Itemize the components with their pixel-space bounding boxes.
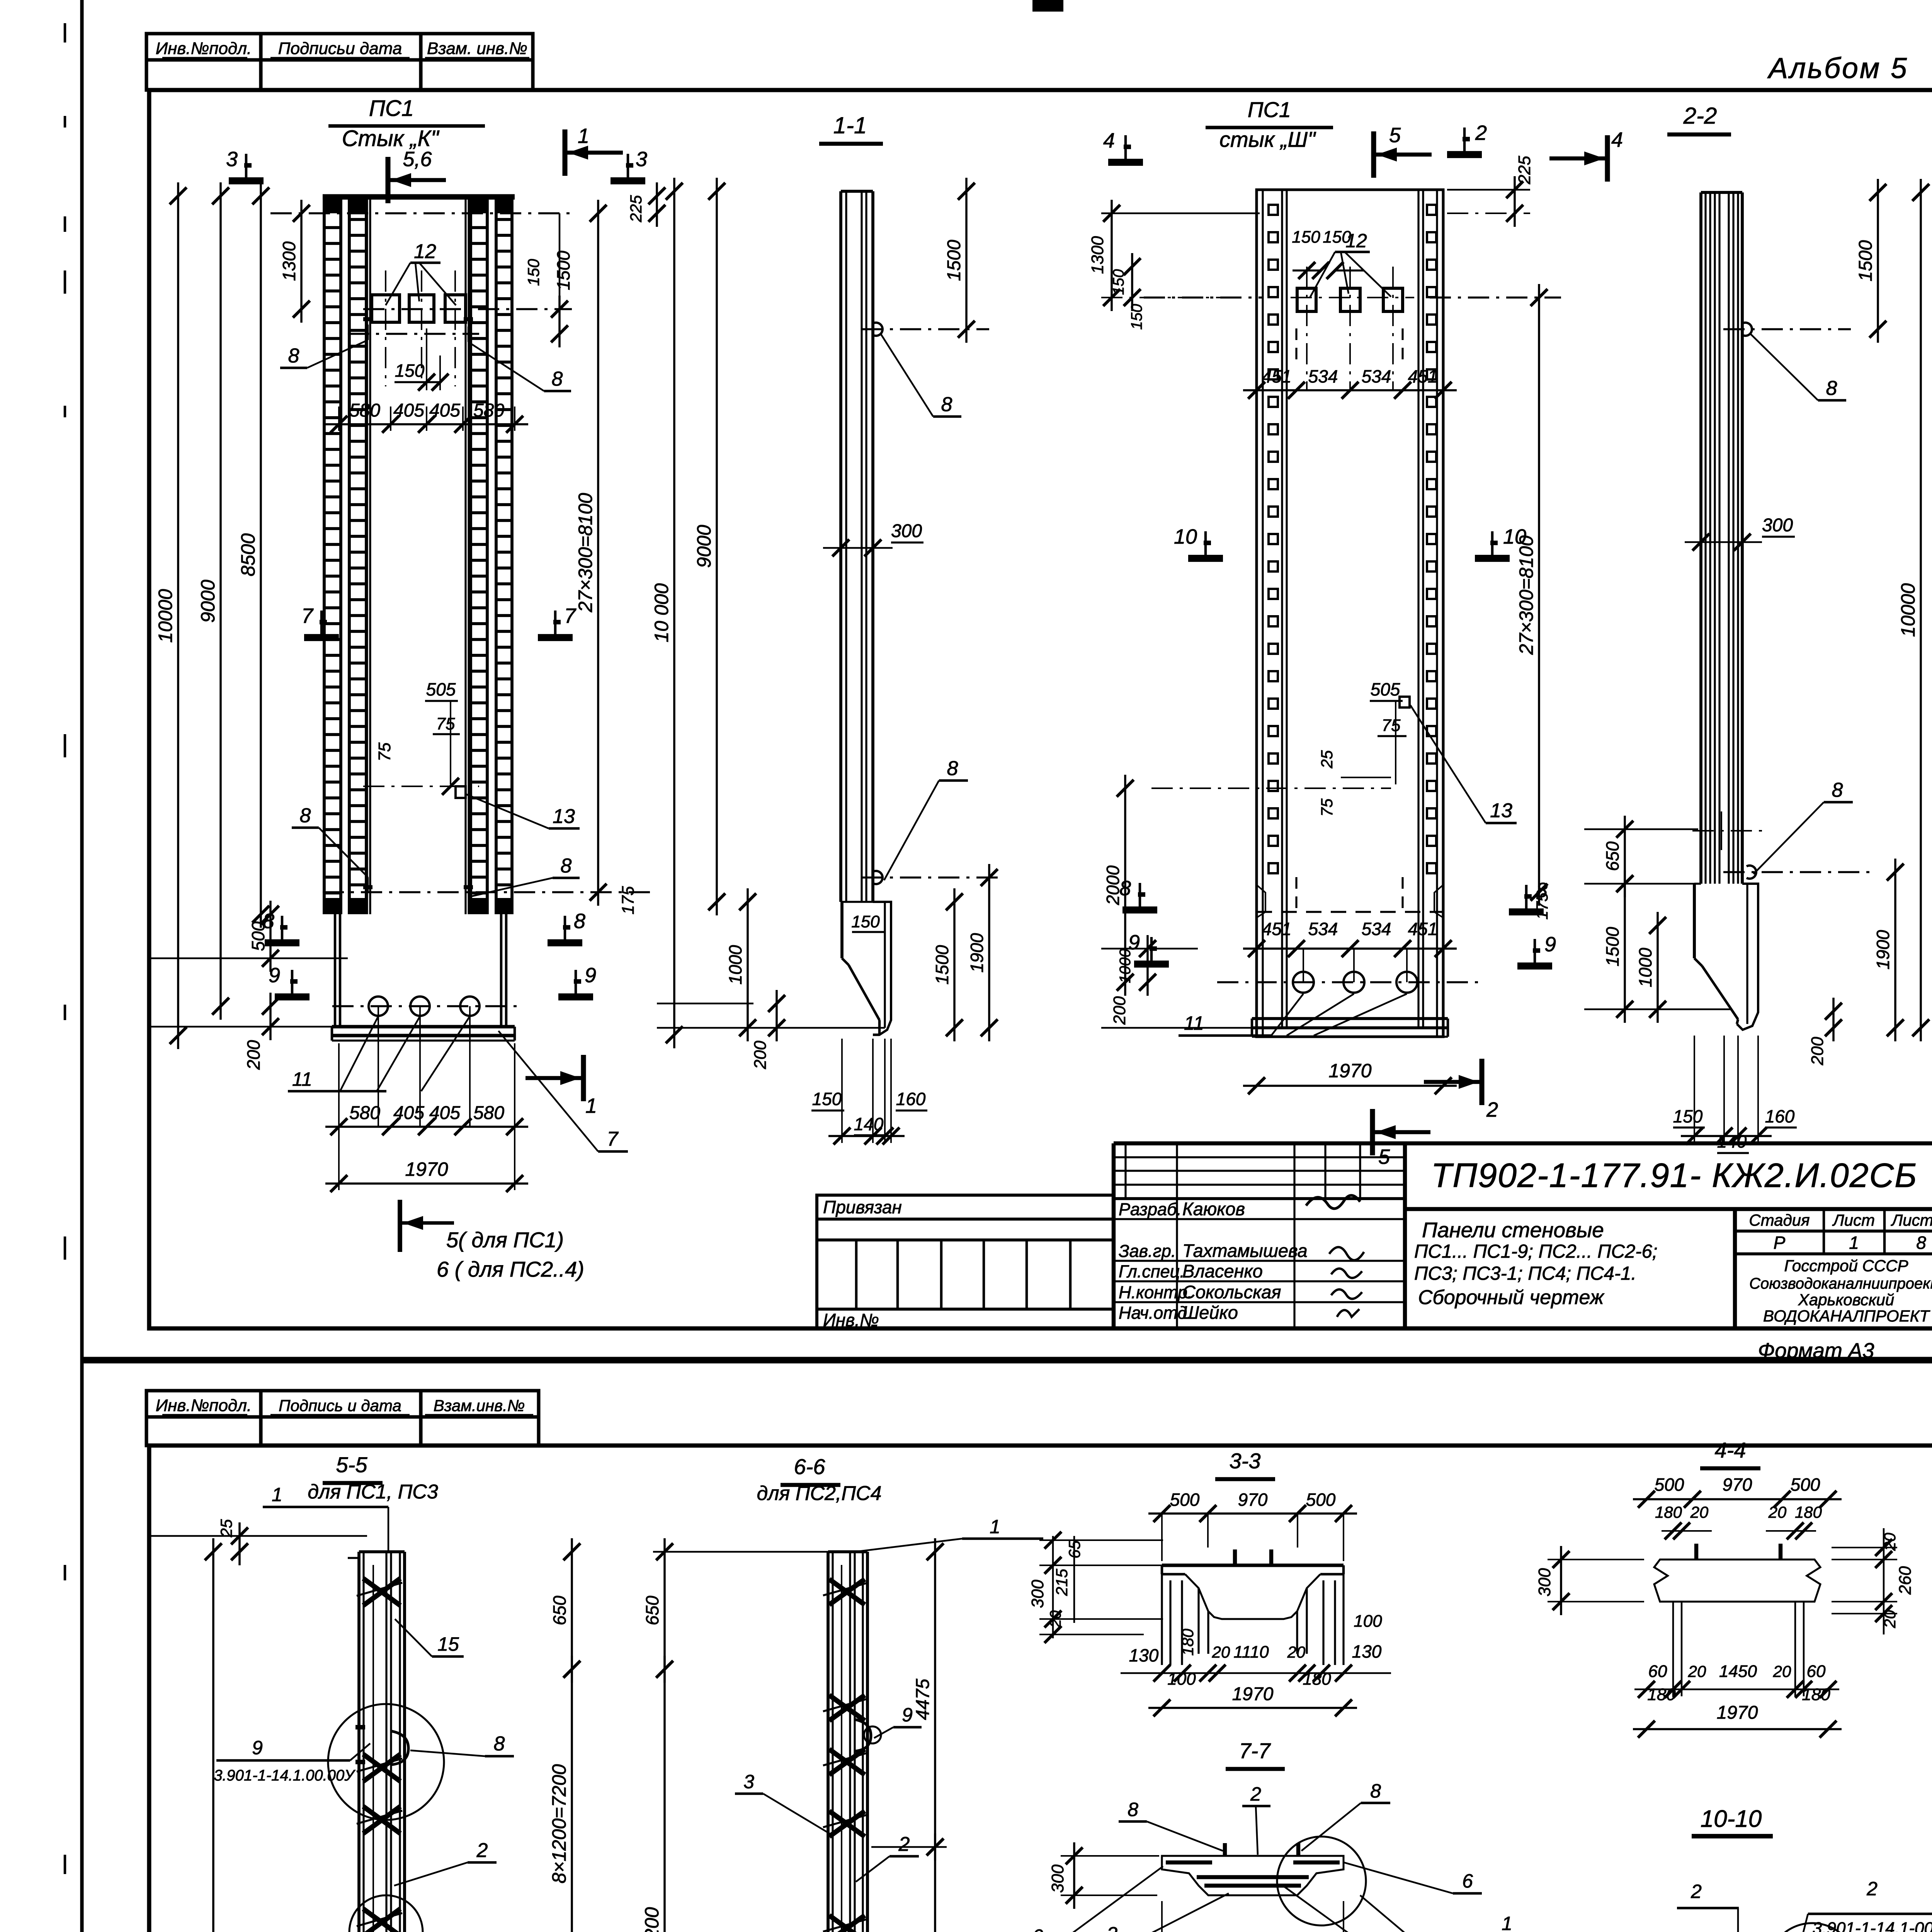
svg-text:1500: 1500 [1855, 240, 1876, 281]
svg-text:451: 451 [1408, 919, 1438, 939]
svg-text:150: 150 [524, 259, 543, 286]
svg-text:Подписьи дата: Подписьи дата [278, 39, 402, 58]
svg-text:150: 150 [812, 1089, 842, 1109]
svg-text:1300: 1300 [279, 241, 299, 281]
svg-text:300: 300 [1048, 1864, 1067, 1893]
svg-text:5( для ПС1): 5( для ПС1) [446, 1228, 564, 1252]
svg-text:140: 140 [854, 1114, 884, 1134]
svg-text:для ПС1, ПС3: для ПС1, ПС3 [308, 1481, 438, 1503]
svg-text:20: 20 [1287, 1643, 1306, 1661]
svg-text:20: 20 [1688, 1662, 1706, 1680]
svg-text:500: 500 [1791, 1475, 1820, 1495]
svg-text:Альбом 5: Альбом 5 [1767, 52, 1908, 84]
svg-text:7: 7 [301, 604, 314, 628]
svg-text:9000: 9000 [693, 525, 715, 568]
svg-text:5: 5 [1389, 124, 1401, 147]
svg-text:534: 534 [1362, 919, 1391, 939]
svg-text:20: 20 [1773, 1662, 1791, 1680]
svg-text:7: 7 [564, 604, 577, 628]
svg-text:Взам. инв.№: Взам. инв.№ [427, 39, 527, 58]
svg-text:8: 8 [1128, 1799, 1138, 1820]
svg-text:534: 534 [1362, 366, 1391, 386]
svg-text:Р: Р [1774, 1233, 1786, 1253]
svg-text:405: 405 [429, 1103, 460, 1123]
svg-text:3: 3 [636, 148, 647, 171]
svg-text:580: 580 [473, 400, 504, 421]
svg-text:180: 180 [1647, 1685, 1676, 1704]
svg-text:Панели стеновые: Панели стеновые [1422, 1218, 1604, 1242]
svg-text:1110: 1110 [1233, 1643, 1269, 1662]
svg-text:2: 2 [1475, 121, 1487, 145]
svg-text:Союзводоканалниипроект: Союзводоканалниипроект [1749, 1275, 1932, 1292]
svg-text:Каюков: Каюков [1182, 1199, 1245, 1219]
svg-text:60: 60 [1807, 1662, 1826, 1681]
svg-text:10: 10 [1174, 525, 1197, 548]
svg-text:9: 9 [269, 964, 280, 987]
svg-text:3: 3 [743, 1771, 754, 1793]
svg-text:150: 150 [851, 912, 880, 931]
svg-text:1: 1 [1502, 1913, 1512, 1932]
svg-text:150: 150 [395, 361, 425, 381]
svg-text:9: 9 [1128, 931, 1140, 954]
svg-text:200: 200 [1110, 996, 1129, 1025]
svg-text:8500: 8500 [237, 533, 259, 576]
svg-text:160: 160 [896, 1089, 926, 1109]
svg-text:Сборочный чертеж: Сборочный чертеж [1418, 1286, 1605, 1309]
svg-text:1: 1 [585, 1094, 597, 1117]
svg-text:11: 11 [1184, 1012, 1204, 1034]
svg-text:9: 9 [252, 1737, 263, 1759]
svg-text:180: 180 [1655, 1503, 1682, 1521]
svg-text:Власенко: Власенко [1182, 1261, 1263, 1281]
svg-text:Инв.№подл.: Инв.№подл. [156, 39, 252, 58]
svg-text:10000: 10000 [155, 589, 176, 643]
svg-text:2: 2 [898, 1833, 910, 1855]
svg-text:650: 650 [642, 1595, 662, 1625]
svg-text:13: 13 [553, 805, 575, 828]
svg-text:8: 8 [300, 804, 311, 827]
svg-text:4475: 4475 [913, 1679, 933, 1720]
svg-text:ПС1: ПС1 [1248, 97, 1291, 122]
svg-text:1: 1 [1849, 1233, 1859, 1253]
svg-text:150: 150 [1128, 304, 1145, 330]
svg-text:1970: 1970 [405, 1158, 448, 1180]
svg-text:Госстрой СССР: Госстрой СССР [1784, 1257, 1908, 1275]
svg-text:225: 225 [1515, 156, 1534, 185]
svg-text:505: 505 [426, 679, 456, 699]
svg-text:5-5: 5-5 [336, 1452, 368, 1477]
svg-text:180: 180 [1179, 1628, 1197, 1656]
svg-text:ТП902-1-177.91- КЖ2.И.02СБ: ТП902-1-177.91- КЖ2.И.02СБ [1431, 1156, 1918, 1194]
svg-text:Формат А3: Формат А3 [1758, 1338, 1874, 1362]
svg-text:300: 300 [891, 521, 922, 541]
svg-text:8: 8 [1832, 779, 1843, 801]
svg-text:1970: 1970 [1328, 1060, 1371, 1082]
svg-text:25: 25 [1318, 750, 1336, 769]
svg-text:8: 8 [1119, 877, 1131, 900]
svg-text:8: 8 [1370, 1780, 1381, 1802]
svg-text:20: 20 [1690, 1503, 1709, 1521]
svg-text:Сокольская: Сокольская [1182, 1282, 1281, 1302]
svg-text:Лист: Лист [1832, 1211, 1875, 1229]
svg-text:1450: 1450 [1719, 1662, 1757, 1681]
svg-text:2-2: 2-2 [1683, 103, 1717, 129]
svg-text:12: 12 [414, 240, 436, 263]
svg-text:534: 534 [1308, 366, 1338, 386]
svg-text:ПС3; ПС3-1; ПС4; ПС4-1.: ПС3; ПС3-1; ПС4; ПС4-1. [1414, 1263, 1636, 1284]
svg-text:10: 10 [1503, 525, 1526, 548]
svg-text:6: 6 [1462, 1870, 1473, 1892]
svg-text:1500: 1500 [553, 250, 573, 290]
svg-text:451: 451 [1262, 919, 1292, 939]
svg-text:Шейко: Шейко [1182, 1302, 1238, 1323]
svg-text:2: 2 [1250, 1783, 1261, 1805]
svg-text:8: 8 [1916, 1233, 1926, 1253]
svg-text:650: 650 [1602, 841, 1622, 871]
svg-text:Харьковский: Харьковский [1798, 1291, 1895, 1309]
svg-text:Н.контр.: Н.контр. [1119, 1282, 1192, 1302]
svg-text:6-6: 6-6 [794, 1454, 826, 1479]
svg-text:4: 4 [1611, 128, 1623, 151]
svg-text:13: 13 [1490, 799, 1512, 822]
svg-text:2: 2 [1866, 1878, 1878, 1900]
svg-text:ПС1: ПС1 [369, 96, 414, 121]
svg-text:8: 8 [552, 368, 563, 390]
svg-text:500: 500 [1306, 1490, 1336, 1510]
svg-text:150: 150 [1292, 228, 1320, 247]
svg-text:451: 451 [1262, 366, 1292, 386]
svg-text:1900: 1900 [967, 933, 987, 973]
svg-text:260: 260 [1896, 1566, 1915, 1595]
svg-text:4: 4 [1103, 129, 1115, 152]
svg-text:200: 200 [243, 1040, 264, 1070]
svg-text:1: 1 [578, 124, 589, 148]
svg-text:6×1200=7200: 6×1200=7200 [641, 1907, 663, 1932]
svg-text:8: 8 [1536, 879, 1548, 902]
svg-text:75: 75 [436, 714, 455, 733]
svg-text:8: 8 [947, 757, 958, 780]
svg-text:1500: 1500 [932, 945, 952, 985]
svg-text:75: 75 [1382, 716, 1401, 735]
svg-text:180: 180 [1795, 1503, 1822, 1521]
svg-text:580: 580 [349, 1103, 380, 1123]
svg-text:1000: 1000 [1635, 947, 1655, 987]
svg-text:300: 300 [1762, 515, 1793, 536]
svg-text:ПС1... ПС1-9; ПС2... ПС2-6;: ПС1... ПС1-9; ПС2... ПС2-6; [1414, 1241, 1657, 1262]
svg-text:5,6: 5,6 [403, 148, 432, 171]
svg-text:Инв.№: Инв.№ [823, 1310, 879, 1330]
svg-text:Гл.спец.: Гл.спец. [1119, 1262, 1185, 1281]
svg-text:500: 500 [1170, 1490, 1200, 1510]
svg-text:60: 60 [1648, 1662, 1667, 1681]
svg-text:6: 6 [1032, 1925, 1043, 1932]
svg-text:505: 505 [1371, 679, 1400, 699]
svg-text:10 000: 10 000 [651, 583, 672, 642]
svg-text:11: 11 [292, 1068, 312, 1090]
svg-text:451: 451 [1408, 366, 1438, 386]
svg-text:405: 405 [393, 1103, 424, 1123]
svg-text:75: 75 [375, 742, 394, 761]
svg-text:150: 150 [1673, 1106, 1703, 1126]
svg-text:10000: 10000 [1897, 583, 1919, 637]
svg-text:3.901-1-14.1.00.00У: 3.901-1-14.1.00.00У [214, 1767, 355, 1784]
svg-text:ВОДОКАНАЛПРОЕКТ: ВОДОКАНАЛПРОЕКТ [1763, 1307, 1930, 1325]
svg-text:Стадия: Стадия [1749, 1211, 1810, 1229]
svg-text:200: 200 [751, 1041, 770, 1070]
svg-text:3-3: 3-3 [1230, 1449, 1261, 1473]
svg-text:3.901-1-14.1-00.00У: 3.901-1-14.1-00.00У [1813, 1919, 1932, 1932]
svg-text:1970: 1970 [1232, 1684, 1274, 1704]
svg-text:970: 970 [1723, 1475, 1752, 1495]
svg-text:Зав.гр.: Зав.гр. [1119, 1241, 1176, 1261]
svg-text:8: 8 [941, 393, 952, 416]
svg-text:405: 405 [429, 400, 460, 421]
svg-text:8: 8 [561, 855, 572, 877]
svg-text:1300: 1300 [1088, 236, 1107, 274]
svg-text:650: 650 [549, 1595, 570, 1625]
svg-text:27×300=8100: 27×300=8100 [1515, 535, 1537, 655]
svg-text:130: 130 [1352, 1641, 1382, 1662]
svg-text:1000: 1000 [725, 945, 745, 985]
svg-text:3: 3 [226, 148, 238, 171]
svg-text:8: 8 [1826, 377, 1837, 400]
svg-text:1970: 1970 [1717, 1702, 1758, 1723]
svg-text:Листов: Листов [1891, 1211, 1932, 1229]
svg-text:534: 534 [1308, 919, 1338, 939]
svg-text:20: 20 [1212, 1643, 1230, 1661]
svg-text:Привязан: Привязан [823, 1197, 902, 1217]
svg-text:405: 405 [393, 400, 424, 421]
svg-text:1900: 1900 [1873, 930, 1893, 969]
svg-text:8: 8 [263, 910, 274, 933]
svg-text:6 ( для ПС2..4): 6 ( для ПС2..4) [437, 1257, 584, 1281]
svg-text:15: 15 [437, 1633, 459, 1655]
svg-text:для ПС2,ПС4: для ПС2,ПС4 [757, 1482, 881, 1505]
svg-text:9: 9 [902, 1704, 913, 1726]
svg-text:200: 200 [1808, 1037, 1827, 1066]
svg-text:225: 225 [627, 195, 645, 223]
svg-text:9: 9 [585, 964, 596, 987]
svg-text:2: 2 [1486, 1098, 1498, 1121]
svg-text:Взам.инв.№: Взам.инв.№ [434, 1396, 525, 1415]
svg-text:150: 150 [1323, 228, 1351, 247]
svg-text:Подпись и дата: Подпись и дата [279, 1396, 401, 1415]
svg-text:25: 25 [217, 1519, 235, 1537]
svg-text:160: 160 [1765, 1106, 1795, 1126]
svg-text:Тахтамышева: Тахтамышева [1182, 1240, 1308, 1261]
svg-text:9000: 9000 [197, 580, 219, 622]
svg-text:20: 20 [1768, 1503, 1787, 1521]
svg-text:100: 100 [1354, 1612, 1382, 1631]
svg-text:580: 580 [349, 400, 380, 421]
svg-text:180: 180 [1802, 1685, 1830, 1704]
svg-text:9: 9 [1544, 933, 1556, 956]
svg-text:150: 150 [1110, 269, 1127, 295]
svg-text:7: 7 [607, 1128, 619, 1150]
svg-text:130: 130 [1129, 1645, 1159, 1665]
svg-text:1: 1 [990, 1516, 1000, 1537]
svg-text:970: 970 [1238, 1490, 1268, 1510]
svg-text:стык „Ш": стык „Ш" [1219, 127, 1316, 151]
svg-text:8: 8 [288, 345, 299, 367]
svg-text:3: 3 [1107, 1923, 1117, 1932]
svg-text:10-10: 10-10 [1701, 1806, 1762, 1832]
svg-text:75: 75 [1318, 798, 1336, 816]
svg-text:8: 8 [574, 910, 585, 933]
svg-text:7-7: 7-7 [1239, 1738, 1271, 1763]
svg-text:500: 500 [1655, 1475, 1684, 1495]
svg-text:Разраб.: Разраб. [1119, 1199, 1182, 1219]
svg-text:Инв.№подл.: Инв.№подл. [156, 1396, 252, 1415]
svg-text:2: 2 [476, 1839, 488, 1862]
svg-text:1-1: 1-1 [833, 112, 867, 138]
svg-text:8: 8 [494, 1733, 505, 1755]
svg-text:175: 175 [619, 886, 638, 915]
svg-text:4-4: 4-4 [1715, 1438, 1746, 1462]
svg-text:1500: 1500 [1602, 927, 1622, 966]
svg-text:1: 1 [272, 1484, 282, 1505]
svg-text:300: 300 [1028, 1580, 1047, 1608]
svg-text:215: 215 [1053, 1568, 1071, 1596]
svg-text:Нач.отд.: Нач.отд. [1119, 1303, 1192, 1323]
svg-text:300: 300 [1535, 1568, 1554, 1597]
svg-text:580: 580 [473, 1103, 504, 1123]
svg-text:2: 2 [1690, 1881, 1702, 1902]
svg-text:8×1200=7200: 8×1200=7200 [548, 1764, 570, 1883]
svg-text:1500: 1500 [944, 240, 964, 281]
svg-text:27×300=8100: 27×300=8100 [575, 493, 596, 612]
